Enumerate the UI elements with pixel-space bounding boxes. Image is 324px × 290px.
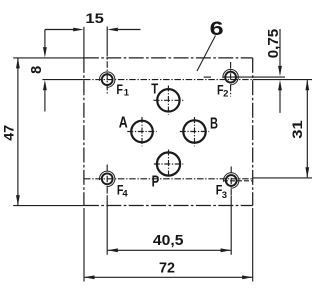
svg-text:B: B bbox=[210, 116, 218, 133]
reference line right of plate at F4 level bbox=[253, 177, 312, 179]
centerline F2 vertical bbox=[230, 62, 232, 97]
centerline P vertical bbox=[168, 150, 170, 179]
dimension 15 line bbox=[45, 28, 141, 32]
dimension 8 arrows bbox=[43, 30, 47, 112]
label F2 bbox=[217, 82, 228, 100]
svg-text:15: 15 bbox=[85, 11, 104, 26]
port T bbox=[157, 89, 179, 111]
svg-text:2: 2 bbox=[223, 89, 228, 100]
svg-text:F: F bbox=[116, 81, 123, 97]
extension line 8-dim at F1 level bbox=[42, 79, 84, 81]
svg-text:31: 31 bbox=[289, 120, 305, 139]
centerline F4-F3 row bbox=[84, 178, 253, 180]
svg-text:72: 72 bbox=[159, 260, 175, 276]
label F3 bbox=[216, 181, 227, 201]
centerline F1-F2 row bbox=[84, 79, 253, 81]
extension line plate top to left bbox=[13, 57, 84, 59]
label F1 bbox=[116, 81, 129, 99]
centerline B vertical bbox=[194, 117, 196, 146]
extension line left plate corner down bbox=[83, 208, 85, 282]
plate outline bottom edge bbox=[84, 205, 253, 207]
extension line plate bottom to left bbox=[13, 205, 84, 207]
dimension 47 line bbox=[16, 58, 20, 206]
centerline of F2 horizontal bbox=[204, 76, 285, 78]
dimension 31 line bbox=[305, 80, 309, 178]
svg-text:40,5: 40,5 bbox=[153, 232, 184, 249]
centerline F4 vertical and extension to 40,5 bbox=[106, 165, 108, 197]
port A bbox=[131, 121, 153, 143]
port B bbox=[183, 120, 205, 142]
mounting hole F3 bbox=[224, 173, 239, 188]
centerline B horizontal bbox=[180, 131, 209, 133]
centerline T vertical bbox=[167, 86, 169, 115]
centerline P horizontal bbox=[154, 163, 183, 165]
dimension 0,75 arrows bbox=[278, 29, 282, 113]
extension line above plate for 15 bbox=[83, 27, 85, 58]
extension line right plate corner down bbox=[252, 208, 254, 282]
reference line right of plate at F1 level bbox=[253, 79, 312, 81]
centerline A horizontal bbox=[127, 131, 156, 133]
plate outline top edge bbox=[84, 57, 253, 59]
svg-text:0,75: 0,75 bbox=[266, 29, 282, 59]
leader line for label 6 bbox=[197, 36, 216, 72]
dimension 40,5 line bbox=[107, 248, 231, 252]
svg-text:8: 8 bbox=[29, 66, 45, 74]
dimension 72 line bbox=[84, 275, 253, 279]
svg-text:T: T bbox=[151, 80, 158, 97]
label F4 bbox=[117, 181, 128, 199]
svg-text:3: 3 bbox=[222, 190, 227, 201]
centerline F3 vertical and extension to 40,5 bbox=[230, 167, 232, 197]
svg-text:47: 47 bbox=[0, 125, 16, 141]
svg-text:1: 1 bbox=[124, 87, 130, 98]
svg-text:P: P bbox=[152, 174, 160, 191]
mounting hole F2 bbox=[223, 69, 238, 84]
svg-text:6: 6 bbox=[210, 19, 224, 40]
port P bbox=[157, 152, 180, 175]
mounting hole F1 bbox=[100, 72, 115, 87]
centerline A vertical bbox=[141, 117, 143, 146]
svg-text:A: A bbox=[119, 115, 128, 132]
centerline F1 vertical bbox=[106, 27, 108, 51]
plate outline left edge bbox=[83, 58, 85, 206]
svg-text:4: 4 bbox=[122, 188, 128, 199]
centerline T horizontal bbox=[154, 99, 184, 101]
mounting hole F4 bbox=[100, 171, 115, 186]
centerline of F3 horizontal bbox=[223, 180, 253, 182]
plate outline right edge bbox=[252, 58, 254, 206]
